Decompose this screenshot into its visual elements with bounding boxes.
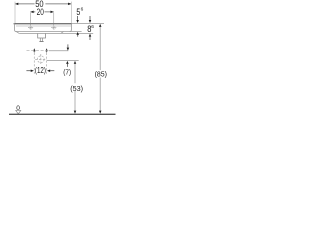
dim line 20 (30, 11, 53, 13)
extension line left x15 (14, 2, 16, 24)
dim 50 arrow left (15, 3, 18, 6)
fixing axis right arrow up (45, 48, 48, 51)
dim 5-6 arrow up (76, 32, 79, 35)
svg-text:6: 6 (91, 24, 94, 30)
svg-text:(85): (85) (95, 70, 108, 79)
tap axis left x30.4 (29, 13, 31, 30)
apron chamfer right (61, 32, 64, 34)
drain box (38, 34, 46, 38)
dim 53 line (74, 64, 76, 112)
dim 8-6 arrow up (89, 34, 92, 37)
drain hole circle dashed (37, 56, 44, 63)
tap hole cross left (28, 27, 33, 29)
dim 53 arrow up (74, 61, 77, 64)
drain hole vertical axis (40, 54, 42, 64)
dim 7 arrow up (66, 61, 69, 64)
outlet line solid (49, 50, 69, 52)
basin right edge (70, 23, 72, 31)
dim 50 arrow right (68, 3, 71, 6)
trap line (47, 60, 79, 62)
apron chamfer left (16, 32, 19, 34)
tap hole cross right (51, 27, 56, 29)
basin top edge (14, 23, 72, 25)
drain pipe stub (40, 38, 42, 41)
dim 53 arrow down (74, 111, 77, 114)
dim line 50 (15, 3, 71, 5)
drain hole horizontal axis (35, 58, 47, 60)
tap axis right x53.7 (53, 13, 55, 30)
drain flange (39, 41, 43, 43)
svg-text:20: 20 (37, 7, 44, 17)
fixing axis right dashed (46, 53, 48, 74)
outlet axis dashed horizontal (27, 50, 49, 52)
dim 85 line (99, 27, 101, 111)
fixing axis left arrow up (33, 48, 36, 51)
extension line right x71.4 (70, 2, 72, 24)
dim 20 arrow left (30, 11, 33, 14)
svg-text:(12): (12) (35, 66, 46, 75)
dim 12 right arrow and tail (47, 69, 50, 72)
dim 8-6 arrow down (89, 16, 91, 20)
basin bottom line (16, 31, 82, 33)
dim 20 arrow right (51, 11, 54, 14)
svg-text:6: 6 (81, 7, 84, 13)
svg-text:(53): (53) (70, 84, 83, 93)
basin rim inner line (16, 25, 71, 27)
dim 85 arrow up (99, 24, 102, 27)
top extension line to right (72, 22, 104, 24)
svg-text:(7): (7) (63, 67, 71, 76)
dim 85 arrow down (99, 111, 102, 114)
floor line (9, 113, 116, 115)
datum triangle (16, 110, 21, 113)
dim 7 arrow down (67, 44, 69, 48)
dim 12 left tail and arrow (26, 70, 30, 72)
basin left edge (15, 23, 17, 31)
dim 5-6 arrow down (77, 16, 79, 20)
fixing axis left dashed (33, 53, 35, 74)
apron bottom line (19, 32, 93, 34)
